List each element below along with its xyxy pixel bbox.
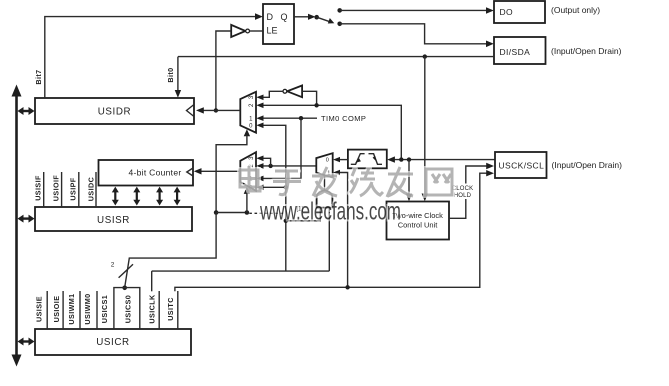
mux C (strobe select) (316, 153, 340, 177)
wire TIM0 COMP to mux A input 1 (263, 116, 317, 120)
node USICLK to mux B input 0 (284, 185, 288, 189)
svg-text:(Input/Open Drain): (Input/Open Drain) (551, 46, 622, 56)
schmitt trigger box (348, 150, 387, 169)
counter/USISR transfer arrows (112, 187, 181, 206)
bus width tick (119, 264, 133, 278)
svg-text:DO: DO (500, 7, 514, 17)
register USIDR (35, 98, 194, 124)
pin DO (494, 1, 545, 23)
and gate (317, 176, 333, 208)
svg-text:USIOIF: USIOIF (52, 175, 61, 202)
bus transfer arrow to USIDR (18, 107, 35, 115)
svg-text:2: 2 (111, 262, 115, 269)
svg-text:(Output only): (Output only) (551, 5, 600, 15)
USISR flag cell dividers (44, 172, 96, 207)
wire USICLK from USICR (151, 271, 153, 291)
svg-text:USIWM1: USIWM1 (67, 293, 76, 324)
svg-text:DI/SDA: DI/SDA (500, 47, 531, 57)
svg-text:USIDC: USIDC (87, 177, 96, 201)
mux B (counter clock select) (240, 152, 263, 191)
register USICR (35, 329, 191, 355)
USICR cell dividers (47, 291, 178, 329)
svg-text:USIOIE: USIOIE (52, 296, 61, 323)
node select bus split (214, 210, 219, 215)
svg-text:USCK/SCL: USCK/SCL (499, 160, 545, 170)
dashed link to USICLK line (249, 212, 283, 214)
node USITC to mux C (345, 285, 349, 289)
register USISR (35, 207, 192, 231)
mux B select arrow (244, 187, 250, 213)
wire switch to DI/SDA (340, 24, 494, 47)
svg-text:USICLK: USICLK (147, 294, 156, 324)
wire USCK down to two-wire unit (406, 160, 412, 202)
svg-text:0: 0 (326, 157, 329, 163)
pin USCK/SCL (495, 152, 547, 178)
wire schmitt output to mux C input 0 (340, 159, 348, 161)
inverter A (latch enable) (231, 25, 263, 37)
svg-text:USIPF: USIPF (69, 177, 78, 200)
USICS0 cell box (114, 288, 140, 329)
svg-text:USICR: USICR (96, 337, 129, 348)
svg-text:(Input/Open Drain): (Input/Open Drain) (552, 160, 623, 170)
svg-text:USICS0: USICS0 (124, 295, 133, 323)
wire DI input line (175, 57, 494, 98)
wire DI down to two-wire unit (422, 57, 428, 202)
wire latch Q to switch (294, 14, 315, 20)
wire USICLK to mux A input 0 (263, 125, 286, 271)
data bus (12, 85, 22, 367)
svg-text:Bit7: Bit7 (34, 69, 43, 84)
mux A (shift clock select) (240, 92, 263, 133)
svg-text:USISIE: USISIE (34, 296, 43, 322)
latch U1 (263, 4, 294, 44)
svg-text:D: D (267, 12, 274, 22)
node mux B select (245, 210, 250, 215)
node USICLK to AND gate (284, 219, 288, 223)
svg-text:USICS1: USICS1 (100, 295, 109, 323)
wire Bit7 to latch D (45, 13, 263, 98)
mux A select arrow (216, 129, 250, 211)
wire switch to DO (340, 7, 494, 14)
wire jog to mux B input 3 (263, 158, 270, 166)
svg-text:Q: Q (281, 12, 288, 22)
svg-text:4-bit Counter: 4-bit Counter (128, 168, 181, 178)
wire mux B output to counter (194, 168, 241, 174)
wire USICLK horizontal run (152, 270, 330, 272)
node USCK up branch (399, 157, 403, 161)
svg-text:USITC: USITC (166, 297, 175, 321)
svg-text:Bit0: Bit0 (166, 67, 175, 82)
wire USITC to mux C input 1 (340, 173, 348, 288)
wire select bus to mux B (216, 212, 247, 214)
wire mux C output to mux B input 2 (263, 165, 316, 167)
bus transfer arrow to USISR (18, 215, 35, 223)
pin DI/SDA (494, 37, 546, 64)
wire USICLK branch to AND gate left input (286, 208, 321, 221)
wire TIM0 COMP down to mux B input 1 (263, 118, 301, 178)
node USICS0 (122, 286, 127, 291)
svg-text:USIWM0: USIWM0 (83, 293, 92, 324)
wire USICLK branch to mux B input 0 (263, 186, 286, 188)
counter 4-bit (99, 160, 194, 186)
two-wire clock control unit (387, 202, 450, 240)
wire select bus from USICS0 (125, 213, 216, 288)
switch S1 (314, 8, 342, 26)
svg-text:HOLD: HOLD (454, 193, 472, 199)
wire LE inverter input from shift clock (216, 31, 231, 110)
svg-text:Control Unit: Control Unit (398, 221, 439, 230)
node inverter B tap (314, 103, 318, 107)
wire USITC to pin (175, 170, 494, 291)
svg-text:TIM0 COMP: TIM0 COMP (321, 114, 366, 123)
inverter B (USCK invert) (263, 86, 316, 106)
watermark (240, 166, 452, 226)
wire USCK line to schmitt (387, 156, 495, 162)
wire clock hold to USCK/SCL (449, 163, 494, 219)
svg-text:www.elecfans.com: www.elecfans.com (259, 198, 401, 226)
svg-text:LE: LE (267, 26, 278, 36)
svg-text:USISIF: USISIF (34, 175, 43, 201)
wire AND gate right input (328, 208, 330, 272)
svg-text:USISR: USISR (97, 215, 130, 226)
wire mux A output to USIDR (shift clock) (196, 107, 240, 113)
node DI to two-wire unit (423, 54, 427, 58)
label CLOCK HOLD (450, 184, 473, 200)
bus transfer arrow to USICR (18, 338, 35, 346)
node USCK to two-wire unit (407, 157, 411, 161)
node mux B input 3 jog (268, 164, 272, 168)
node shift clock tap (214, 108, 218, 112)
wire USCK to mux A input 2 (263, 105, 401, 159)
svg-text:USIDR: USIDR (98, 106, 131, 117)
